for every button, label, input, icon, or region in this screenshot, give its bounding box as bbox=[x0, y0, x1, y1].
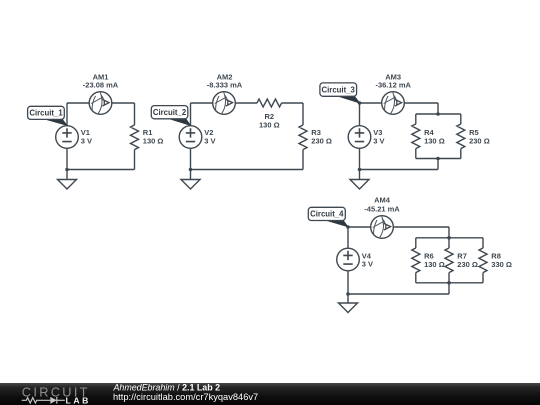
callout Circuit_1 pointer bbox=[45, 119, 67, 125]
ground circuit 2 bbox=[181, 180, 200, 190]
wire R6 upper lead bbox=[415, 238, 417, 248]
node junction circuit 1 ground bbox=[65, 168, 69, 172]
node junction circuit 4 callout bbox=[346, 225, 350, 229]
wire R6 lower lead bbox=[415, 273, 417, 283]
wire bottom rail circuit 2 bbox=[191, 169, 304, 171]
wire ground stem circuit 3 bbox=[359, 170, 361, 180]
wire R8 upper lead bbox=[482, 238, 484, 248]
wire R7 lower lead bbox=[448, 273, 450, 283]
wire top rail circuit 1 bbox=[67, 102, 135, 104]
voltage source V2 bbox=[179, 126, 202, 149]
wire right branch upper circuit 1 bbox=[134, 103, 136, 125]
voltage source V1 bbox=[56, 126, 79, 149]
svg-text:Circuit_2: Circuit_2 bbox=[153, 108, 187, 117]
resistor R6 bbox=[412, 248, 420, 273]
ammeter AM4 bbox=[371, 216, 394, 239]
wire R5 lower lead bbox=[460, 149, 462, 159]
wire R4 upper lead bbox=[415, 114, 417, 124]
callout Circuit_2 box bbox=[151, 106, 188, 119]
svg-text:230 Ω: 230 Ω bbox=[457, 260, 478, 269]
wire left branch circuit 2 bbox=[190, 103, 192, 170]
svg-text:-23.08 mA: -23.08 mA bbox=[83, 81, 119, 90]
node junction circuit 3 callout bbox=[358, 101, 362, 105]
resistor R3 bbox=[299, 125, 307, 150]
wire parallel top rail circuit 3 bbox=[416, 113, 461, 115]
footer bar bbox=[0, 383, 540, 405]
node junction circuit 2 ground bbox=[189, 168, 193, 172]
node junction circuit 4 ground bbox=[346, 292, 350, 296]
wire R8 lower lead bbox=[482, 273, 484, 283]
wire ground stem circuit 2 bbox=[190, 170, 192, 180]
wire feed down circuit 3 bbox=[437, 103, 439, 114]
svg-text:3 V: 3 V bbox=[362, 259, 373, 268]
svg-text:330 Ω: 330 Ω bbox=[491, 260, 512, 269]
resistor R4 bbox=[412, 124, 420, 149]
wire left branch circuit 3 bbox=[359, 103, 361, 170]
svg-text:130 Ω: 130 Ω bbox=[424, 260, 445, 269]
wire parallel bottom rail circuit 4 bbox=[416, 282, 483, 284]
resistor R2 bbox=[257, 99, 282, 107]
svg-text:230 Ω: 230 Ω bbox=[311, 137, 332, 146]
wire left branch circuit 4 bbox=[347, 227, 349, 294]
wire top rail circuit 3 bbox=[360, 102, 439, 104]
svg-text:AhmedEbrahim / 2.1 Lab 2: AhmedEbrahim / 2.1 Lab 2 bbox=[113, 383, 221, 393]
resistor R8 bbox=[479, 248, 487, 273]
wire left branch circuit 1 bbox=[66, 103, 68, 170]
wire top rail right circuit 2 bbox=[282, 102, 303, 104]
wire ground stem circuit 1 bbox=[66, 170, 68, 180]
svg-text:3 V: 3 V bbox=[373, 137, 384, 146]
wire ground stem circuit 4 bbox=[347, 294, 349, 303]
ammeter AM3 bbox=[382, 92, 405, 115]
callout Circuit_3 pointer bbox=[337, 96, 359, 103]
callout Circuit_4 box bbox=[308, 207, 345, 220]
voltage source V4 bbox=[337, 248, 360, 271]
svg-text:http://circuitlab.com/cr7kyqav: http://circuitlab.com/cr7kyqav846v7 bbox=[113, 392, 258, 402]
ground circuit 4 bbox=[339, 303, 358, 313]
svg-text:130 Ω: 130 Ω bbox=[259, 120, 280, 129]
resistor R5 bbox=[457, 124, 465, 149]
svg-text:Circuit_4: Circuit_4 bbox=[310, 210, 344, 219]
svg-text:3 V: 3 V bbox=[204, 137, 215, 146]
wire top rail left circuit 2 bbox=[191, 102, 258, 104]
ground circuit 1 bbox=[58, 180, 77, 190]
svg-text:3 V: 3 V bbox=[81, 137, 92, 146]
node junction circuit 3 ground bbox=[358, 168, 362, 172]
ammeter AM1 bbox=[89, 92, 112, 115]
svg-text:130 Ω: 130 Ω bbox=[424, 137, 445, 146]
wire bottom rail circuit 3 bbox=[360, 169, 439, 171]
wire feed down circuit 4 bbox=[448, 227, 450, 238]
svg-text:130 Ω: 130 Ω bbox=[143, 137, 164, 146]
node junction circuit 3 top feed bbox=[436, 112, 440, 116]
callout Circuit_3 box bbox=[320, 83, 357, 96]
wire bottom rail circuit 4 bbox=[348, 293, 449, 295]
svg-text:LAB: LAB bbox=[66, 396, 91, 405]
svg-text:230 Ω: 230 Ω bbox=[469, 137, 490, 146]
svg-text:-36.12 mA: -36.12 mA bbox=[375, 81, 411, 90]
svg-text:AM4: AM4 bbox=[374, 196, 391, 205]
wire feed up circuit 4 bbox=[448, 283, 450, 294]
wire top rail circuit 4 bbox=[348, 226, 449, 228]
node junction circuit 3 bottom feed bbox=[436, 157, 440, 161]
logo schematic glyph resistor and diode bbox=[22, 397, 65, 404]
svg-text:Circuit_3: Circuit_3 bbox=[322, 85, 356, 94]
voltage source V3 bbox=[348, 126, 371, 149]
svg-text:Circuit_1: Circuit_1 bbox=[29, 109, 63, 118]
node junction circuit 4 bottom feed bbox=[447, 281, 451, 285]
wire right branch lower circuit 2 bbox=[302, 150, 304, 170]
wire parallel bottom rail circuit 3 bbox=[416, 158, 461, 160]
wire parallel top rail circuit 4 bbox=[416, 237, 483, 239]
svg-text:-45.21 mA: -45.21 mA bbox=[364, 204, 400, 213]
wire right branch upper circuit 2 bbox=[302, 103, 304, 125]
ground circuit 3 bbox=[350, 180, 369, 190]
wire bottom rail circuit 1 bbox=[67, 169, 135, 171]
wire R5 upper lead bbox=[460, 114, 462, 124]
resistor R7 bbox=[445, 248, 453, 273]
callout Circuit_2 pointer bbox=[168, 118, 190, 125]
wire feed up circuit 3 bbox=[437, 159, 439, 170]
wire R7 upper lead bbox=[448, 238, 450, 248]
callout Circuit_1 box bbox=[28, 106, 65, 119]
resistor R1 bbox=[131, 125, 139, 150]
wire R4 lower lead bbox=[415, 149, 417, 159]
callout Circuit_4 pointer bbox=[326, 220, 348, 227]
wire right branch lower circuit 1 bbox=[134, 150, 136, 170]
node junction circuit 4 top feed bbox=[447, 236, 451, 240]
ammeter AM2 bbox=[213, 92, 236, 115]
svg-text:-8.333 mA: -8.333 mA bbox=[207, 81, 243, 90]
